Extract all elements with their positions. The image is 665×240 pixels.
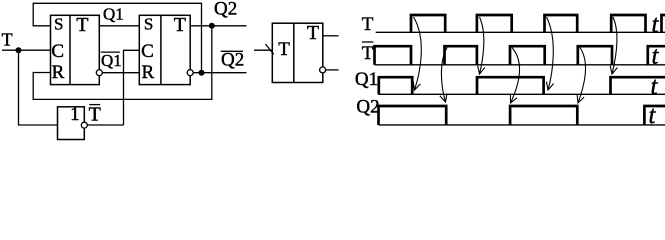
svg-text:C: C (51, 41, 64, 62)
wire bottom feedback Q2 to R1 (33, 26, 212, 100)
node Q2 junction dot (209, 23, 215, 29)
label Q1bar (101, 51, 122, 70)
svg-text:t: t (652, 42, 660, 69)
T flip-flop U4 output Q wire (323, 35, 339, 37)
svg-text:Q1: Q1 (355, 69, 378, 90)
arrow Tbar rise 2 to Q2 rise (510, 48, 519, 104)
inverter U3 output bubble (81, 122, 87, 128)
timing waveform Q2 (379, 106, 665, 125)
svg-text:T: T (362, 43, 374, 64)
timing axis Q1 (378, 93, 665, 95)
timing label Tbar (362, 42, 374, 64)
svg-text:R: R (52, 62, 65, 83)
svg-text:T: T (2, 29, 13, 49)
svg-text:T: T (89, 103, 101, 125)
svg-text:S: S (144, 15, 153, 34)
arrow Tbar rise 1 to Q2 fall (440, 48, 447, 103)
svg-text:t: t (651, 73, 659, 100)
wire T down to inverter (19, 50, 58, 125)
wire top feedback Q2bar to S1 (33, 3, 201, 72)
svg-text:C: C (141, 41, 154, 62)
T flip-flop U4 input wire (254, 49, 272, 51)
arrow T rise 2 to Q1 rise (478, 17, 485, 74)
svg-text:S: S (54, 15, 63, 34)
wire Q2bar output (193, 72, 246, 74)
latch U2 box (139, 15, 190, 84)
timing axis Q2 (379, 124, 665, 126)
T flip-flop U4 box (272, 23, 323, 82)
wire riser Tbar to C2 (124, 50, 140, 125)
latch U2 inverted output bubble (187, 70, 193, 76)
latch U1 box (51, 15, 100, 84)
timing axis T (376, 31, 665, 33)
timing waveform Tbar (375, 46, 665, 65)
T flip-flop U4 output Qbar wire (326, 69, 339, 71)
svg-text:Q2: Q2 (356, 96, 379, 117)
wire T input (2, 49, 51, 51)
wire Q1 to S2 (99, 25, 139, 27)
wire Q1bar to R2 (102, 72, 139, 74)
svg-text:T: T (76, 14, 88, 36)
svg-text:T: T (174, 14, 186, 36)
wire Tbar from inverter to riser (87, 124, 123, 126)
svg-text:T: T (278, 39, 290, 60)
svg-text:T: T (362, 14, 374, 35)
svg-text:R: R (141, 62, 154, 83)
label Tbar at inverter output (89, 103, 101, 125)
timing waveform T (411, 15, 665, 32)
node Q2bar junction dot (199, 70, 205, 76)
timing axis Tbar (375, 64, 665, 66)
timing waveform Q1 (379, 77, 665, 94)
label Q2bar (221, 50, 245, 71)
wire Q2 output (190, 25, 246, 27)
arrow T rise 1 to Q1 fall (413, 17, 421, 90)
svg-text:Q1: Q1 (101, 51, 122, 70)
svg-text:Q2: Q2 (214, 0, 237, 20)
inverter U3 box (58, 107, 85, 140)
svg-text:t: t (652, 11, 660, 38)
svg-text:t: t (649, 102, 657, 129)
arrow T rise 3 to Q1 fall (546, 17, 553, 90)
node T junction dot (16, 47, 22, 53)
arrow T rise 4 to Q1 rise (610, 17, 617, 74)
svg-text:T: T (307, 22, 319, 44)
latch U1 inverted output bubble (96, 70, 102, 76)
T flip-flop U4 dynamic input slash (266, 44, 274, 54)
T flip-flop U4 output bubble (320, 67, 326, 73)
svg-text:Q1: Q1 (103, 5, 124, 24)
svg-text:Q2: Q2 (221, 50, 244, 71)
svg-text:1: 1 (70, 104, 80, 125)
arrow Tbar rise 3 to Q2 fall (577, 48, 585, 104)
